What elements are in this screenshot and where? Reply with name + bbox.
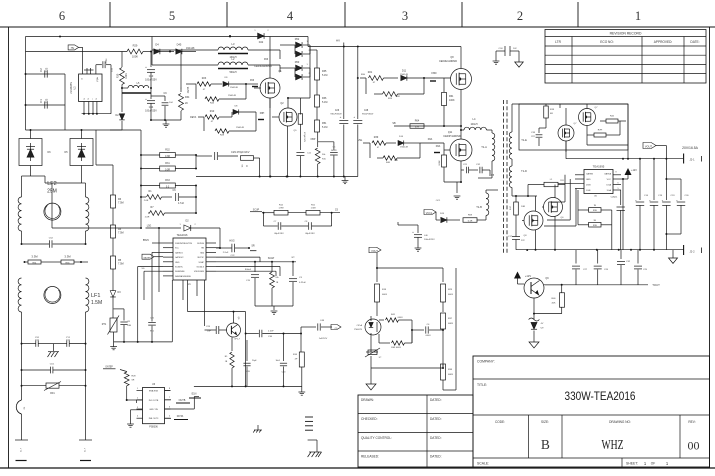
- svg-text:3.3M: 3.3M: [64, 255, 71, 259]
- svg-text:F66: F66: [250, 79, 255, 82]
- svg-text:0.3R: 0.3R: [165, 155, 170, 158]
- capacitor C34/C02: [496, 46, 519, 56]
- svg-text:+12V: +12V: [631, 169, 637, 172]
- wire: [110, 129, 122, 131]
- inductor L4 100uH: [460, 117, 492, 132]
- label 20V/16.5A: [682, 146, 699, 150]
- svg-text:TITLE:: TITLE:: [477, 383, 487, 387]
- resistor R29f 0603: [441, 284, 454, 310]
- svg-text:3: 3: [402, 9, 408, 23]
- svg-text:WHZ: WHZ: [602, 437, 624, 452]
- wire: [587, 104, 628, 159]
- zigzag resistor R24: [366, 77, 425, 100]
- label DOTA: [165, 388, 189, 420]
- capacitor C36 2.2nF: [246, 330, 284, 338]
- ground: [493, 51, 500, 64]
- resistor R18 6R: [544, 104, 555, 128]
- capacitor C19b: [662, 159, 676, 250]
- svg-text:GATELS: GATELS: [175, 251, 183, 254]
- MOSFET Q2 CE03H1100ND: [272, 97, 297, 178]
- capacitor C20c 20pF: [243, 340, 257, 386]
- capacitor C5 560PF: [318, 142, 338, 177]
- flag VCC1: [424, 210, 436, 216]
- EMI filter LF2 25M: [18, 181, 89, 244]
- dual diode D52: [280, 38, 310, 59]
- flag HV: [68, 45, 83, 74]
- capacitor CS11: [611, 190, 625, 250]
- diode D9 1N4148: [223, 77, 246, 89]
- resistor R29 100K: [26, 44, 152, 59]
- capacitor C29 470pF/1KV: [196, 150, 250, 160]
- svg-text:SCUP: SCUP: [253, 210, 260, 212]
- svg-text:223: 223: [45, 67, 49, 72]
- svg-text:SCAP: SCAP: [268, 257, 275, 260]
- wire: [371, 356, 444, 380]
- label GATEP2: [103, 366, 127, 372]
- svg-text:VSUS/GFB: VSUS/GFB: [194, 271, 205, 273]
- flag GATEP: [142, 254, 163, 259]
- ground: [127, 410, 142, 427]
- svg-text:R33: R33: [165, 179, 170, 182]
- resistor R55 3.3M: [24, 255, 89, 265]
- svg-text:+: +: [145, 65, 147, 69]
- svg-text:TEA1995: TEA1995: [593, 165, 605, 169]
- svg-text:DGB: DGB: [586, 185, 591, 187]
- wire SR gate drives: [544, 175, 576, 226]
- label SG12: [142, 268, 145, 270]
- capacitor C14: [635, 159, 649, 250]
- svg-text:SHSENSE: SHSENSE: [175, 271, 185, 273]
- svg-text:1N4148: 1N4148: [400, 147, 408, 149]
- svg-text:5.1M: 5.1M: [322, 101, 327, 104]
- svg-text:OC1: OC1: [436, 200, 441, 202]
- diode D3: [110, 283, 121, 318]
- svg-text:0.22uF: 0.22uF: [299, 282, 306, 284]
- capacitor C19: [649, 159, 663, 250]
- capacitor C24 1nF: [205, 326, 228, 334]
- zigzag resistor R21: [357, 71, 398, 84]
- flag VOUT out: [643, 143, 666, 159]
- power +12V: [622, 168, 637, 250]
- resistor R38f 0683: [441, 268, 457, 390]
- wire VCC1 run: [398, 222, 410, 225]
- resistor R5 7.5M: [111, 238, 124, 283]
- label OETA: [190, 116, 200, 119]
- wire TOUT link: [562, 284, 648, 286]
- wire: [188, 311, 247, 388]
- capacitor C8: [114, 309, 132, 342]
- svg-text:L5G: L5G: [358, 139, 363, 142]
- capacitor C8b 68pF/1KV: [281, 213, 331, 235]
- diode D2: [115, 88, 124, 130]
- wire SB node: [392, 104, 462, 127]
- svg-text:6: 6: [617, 183, 618, 185]
- svg-text:100uF/25V: 100uF/25V: [424, 239, 435, 241]
- wire: [136, 400, 138, 403]
- svg-text:VOUT: VOUT: [645, 145, 653, 149]
- svg-text:LTR: LTR: [555, 40, 561, 44]
- resistor R4 7.5M: [111, 208, 124, 238]
- svg-text:PS4075: PS4075: [354, 329, 363, 331]
- transformer T1-B winding: [476, 190, 498, 220]
- svg-text:0603: 0603: [448, 294, 454, 296]
- svg-text:OF: OF: [651, 462, 655, 466]
- svg-text:5.1M: 5.1M: [322, 74, 327, 77]
- connector J1-2: [79, 440, 92, 461]
- svg-text:10k: 10k: [275, 277, 278, 279]
- wire HV rail right: [288, 47, 310, 99]
- resistor R34 2K: [179, 52, 191, 121]
- label E1N: [165, 393, 202, 410]
- svg-text:10R: 10R: [521, 206, 525, 208]
- wire: [216, 267, 280, 277]
- svg-text:LNK364BN: LNK364BN: [70, 82, 73, 94]
- capacitor C4 0603: [411, 324, 443, 343]
- resistor R46 40K: [551, 285, 564, 314]
- svg-text:560PF: 560PF: [331, 150, 338, 152]
- svg-text:20pF: 20pF: [252, 360, 257, 362]
- resistor R30b: [578, 210, 612, 250]
- svg-text:C2: C2: [39, 68, 43, 72]
- svg-text:CODE:: CODE:: [495, 420, 505, 424]
- svg-text:R64: R64: [415, 120, 420, 123]
- svg-text:SG: SG: [142, 268, 145, 270]
- svg-text:XGA: XGA: [607, 189, 612, 192]
- svg-text:1: 1: [635, 9, 641, 23]
- zigzag resistor R66: [270, 262, 279, 306]
- transformer T1-D winding: [509, 159, 527, 196]
- svg-text:HV: HV: [336, 39, 340, 43]
- svg-text:R36: R36: [322, 97, 327, 100]
- svg-text:C1: C1: [39, 99, 43, 103]
- svg-text:1N4148: 1N4148: [236, 127, 244, 129]
- svg-text:T1-B: T1-B: [476, 205, 482, 209]
- svg-text:CU1: CU1: [50, 364, 55, 366]
- svg-text:CE03H1100ND: CE03H1100ND: [254, 64, 272, 68]
- svg-text:SUP3C: SUP3C: [197, 257, 204, 259]
- svg-text:GATEP: GATEP: [143, 257, 151, 260]
- svg-text:SCIB/VC: SCIB/VC: [175, 267, 184, 269]
- capacitor C34 100uF/25V: [145, 88, 157, 120]
- svg-text:D45: D45: [177, 43, 182, 47]
- svg-text:560uH: 560uH: [229, 71, 236, 74]
- MOSFET Q1 CE03H1100ND: [254, 37, 282, 109]
- connector J2-2: [684, 245, 702, 255]
- svg-text:R35: R35: [322, 70, 327, 73]
- zigzag resistor R1: [141, 190, 172, 202]
- svg-text:+: +: [340, 115, 342, 119]
- resistor R18f 0603: [375, 284, 388, 316]
- wire: [376, 253, 443, 282]
- svg-text:0.3R: 0.3R: [165, 168, 170, 171]
- svg-text:DATED:: DATED:: [430, 455, 442, 459]
- svg-text:2: 2: [517, 9, 523, 23]
- svg-text:L5G: L5G: [147, 225, 152, 228]
- fuse F1: [16, 400, 26, 414]
- resistor R35 5.1M: [310, 50, 327, 80]
- svg-text:68pF/1KV: 68pF/1KV: [274, 233, 284, 235]
- svg-text:0603: 0603: [398, 317, 404, 319]
- transformer T1-A winding: [481, 130, 495, 170]
- svg-text:SB: SB: [392, 122, 396, 125]
- svg-text:F8A: F8A: [428, 138, 433, 141]
- wire gnd bus: [194, 385, 302, 387]
- capacitor C17 222: [508, 234, 525, 250]
- svg-text:R3B: R3B: [593, 210, 598, 212]
- svg-text:SASWA/VSENSE: SASWA/VSENSE: [175, 275, 191, 278]
- svg-text:DATED:: DATED:: [430, 398, 442, 402]
- zigzag resistor R47: [225, 337, 234, 387]
- svg-text:OP-A: OP-A: [357, 324, 363, 327]
- svg-text:+: +: [412, 230, 414, 234]
- zigzag resistor R10: [200, 110, 232, 123]
- svg-text:20V/16.5A: 20V/16.5A: [682, 146, 699, 150]
- svg-text:INB OUT3: INB OUT3: [149, 418, 159, 420]
- svg-text:2.2nF: 2.2nF: [223, 252, 229, 254]
- diode D14 1N4148: [398, 136, 420, 149]
- wire U1 bottom pins: [183, 280, 205, 326]
- ground: [454, 196, 461, 199]
- svg-text:R34: R34: [185, 96, 190, 99]
- svg-text:1.5M: 1.5M: [311, 208, 316, 210]
- resistor R32 0.3R: [141, 149, 196, 158]
- dual diode D50: [280, 61, 310, 80]
- resistor R62 100K: [439, 143, 447, 182]
- svg-text:GATEB: GATEB: [586, 173, 594, 176]
- capacitor C6 4.7uF: [172, 186, 196, 206]
- capacitor C33 222: [531, 128, 546, 146]
- capacitor C7 68pF/1KV: [264, 213, 285, 235]
- svg-text:SUPHS: SUPHS: [197, 243, 205, 245]
- svg-text:GND YIN: GND YIN: [149, 409, 158, 411]
- svg-text:GND: GND: [175, 262, 180, 264]
- svg-text:0683: 0683: [448, 374, 454, 376]
- svg-text:100K: 100K: [132, 55, 138, 59]
- svg-text:IN1 OUTB: IN1 OUTB: [149, 400, 159, 402]
- svg-text:R51: R51: [322, 122, 327, 125]
- svg-text:R63 0603: R63 0603: [391, 347, 401, 349]
- svg-text:100K: 100K: [439, 160, 441, 166]
- capacitor C3 0.22uF: [289, 262, 306, 306]
- svg-text:DATED:: DATED:: [430, 436, 442, 440]
- svg-text:RT1: RT1: [102, 323, 107, 326]
- diode D45 1N4148: [150, 43, 196, 55]
- resistor R64 47R: [410, 120, 424, 129]
- svg-text:DRAWN:: DRAWN:: [361, 398, 374, 402]
- svg-text:XGB: XGB: [586, 190, 591, 192]
- resistor R61 100K: [436, 78, 455, 127]
- svg-text:R29: R29: [133, 44, 138, 48]
- svg-text:DGA: DGA: [606, 184, 611, 187]
- svg-text:DRAWING NO:: DRAWING NO:: [609, 420, 631, 424]
- wire top rail: [26, 36, 309, 47]
- flag F8H: [256, 112, 272, 120]
- ground triangle: [515, 51, 524, 67]
- diode D8 1N4148: [232, 106, 256, 118]
- zigzag resistor R40: [370, 138, 444, 164]
- svg-text:26R: 26R: [396, 96, 400, 98]
- svg-text:HSG: HSG: [229, 240, 234, 243]
- earth ground 2: [253, 425, 262, 433]
- svg-text:REVISION RECORD: REVISION RECORD: [610, 31, 642, 35]
- svg-text:DOTA: DOTA: [177, 415, 184, 418]
- capacitor C21b: [461, 164, 478, 173]
- transistor Q5: [227, 317, 241, 341]
- svg-text:T1-D: T1-D: [521, 169, 527, 173]
- connector J1-1: [15, 440, 28, 461]
- ground triangle: [366, 380, 376, 390]
- capacitor C1: [25, 73, 66, 109]
- wire HV bus: [308, 46, 461, 120]
- svg-text:C28: C28: [364, 110, 369, 112]
- svg-text:6.1R: 6.1R: [468, 221, 473, 223]
- svg-text:B5VC: B5VC: [143, 239, 150, 242]
- svg-text:7.5M: 7.5M: [118, 232, 124, 235]
- resistor R37 0683: [441, 310, 454, 356]
- optocoupler OP-A: [354, 316, 381, 352]
- bridge rectifier D6: [19, 130, 51, 176]
- svg-text:100K: 100K: [449, 99, 455, 102]
- svg-text:10nF: 10nF: [275, 360, 280, 362]
- capacitor C2M: [96, 59, 114, 114]
- svg-text:5: 5: [617, 188, 618, 190]
- inductor L1/R11: [528, 179, 565, 196]
- svg-text:26R: 26R: [394, 160, 398, 162]
- diode D42: [229, 30, 269, 44]
- transistor Q9: [524, 277, 549, 298]
- resistor R41 0603: [379, 314, 412, 343]
- svg-text:1N4148: 1N4148: [186, 47, 195, 50]
- resistor R16 4P: [284, 333, 305, 387]
- svg-text:ENA EXB: ENA EXB: [149, 390, 159, 393]
- title block: [473, 356, 710, 467]
- ground: [255, 306, 293, 314]
- label FBP: [311, 138, 316, 141]
- capacitor C30: [665, 178, 689, 235]
- diode D11 1N4148: [400, 70, 424, 81]
- svg-text:GATEA: GATEA: [604, 173, 612, 176]
- svg-text:ECO NO:: ECO NO:: [600, 40, 614, 44]
- capacitor C2: [26, 67, 66, 130]
- svg-text:1N4148: 1N4148: [230, 87, 238, 89]
- MOSFET Q6b: [542, 185, 564, 250]
- capacitor C22 2.2nF: [216, 240, 256, 258]
- capacitor C27: [572, 250, 588, 285]
- svg-text:4.7uF: 4.7uF: [178, 202, 185, 205]
- power +12V arrow: [514, 272, 531, 285]
- svg-text:40K: 40K: [552, 303, 556, 305]
- capacitor C10 100uF/25V: [145, 52, 157, 89]
- svg-text:5R: 5R: [132, 380, 135, 382]
- capacitor C48 1nF/1KV: [301, 320, 332, 340]
- svg-text:R31: R31: [165, 162, 170, 165]
- EMI filter LF1 1.5M: [18, 278, 102, 344]
- diode D4: [154, 43, 170, 55]
- svg-text:F8D: F8D: [432, 71, 437, 75]
- varistor RF1: [21, 382, 87, 396]
- IC U2 LNK364BN: [70, 65, 111, 115]
- svg-text:5: 5: [169, 9, 175, 23]
- svg-text:J2-1: J2-1: [689, 158, 695, 162]
- svg-text:4: 4: [287, 9, 294, 23]
- svg-text:100K: 100K: [125, 73, 128, 79]
- svg-text:SCAP: SCAP: [199, 261, 205, 264]
- ground bus: [196, 176, 358, 184]
- svg-text:100uH: 100uH: [470, 123, 477, 126]
- svg-text:GND: GND: [586, 179, 591, 181]
- svg-text:D50: D50: [295, 61, 300, 64]
- svg-text:COMPANY:: COMPANY:: [477, 360, 495, 364]
- svg-text:223: 223: [45, 98, 49, 103]
- flag VOUT fb: [369, 247, 381, 253]
- svg-text:RELEASED:: RELEASED:: [361, 455, 379, 459]
- svg-text:TEA2016: TEA2016: [177, 233, 188, 237]
- svg-text:VOUT: VOUT: [371, 250, 378, 253]
- svg-text:J2-2: J2-2: [689, 250, 695, 254]
- svg-text:GATEP: GATEP: [105, 366, 113, 369]
- svg-text:DATED:: DATED:: [430, 417, 442, 421]
- capacitor C28c 10nF: [275, 333, 287, 388]
- svg-text:0603: 0603: [382, 294, 388, 296]
- earth ground: [308, 440, 322, 457]
- label HV: [336, 39, 344, 47]
- svg-text:R30: R30: [117, 73, 120, 78]
- transformer T1 core: [504, 100, 508, 255]
- inductor L2 560uH: [152, 50, 280, 74]
- resistor R17 10R: [510, 196, 525, 234]
- capacitor C21: [148, 300, 156, 342]
- ground: [48, 352, 60, 357]
- svg-text:10B: 10B: [127, 325, 131, 327]
- resistor R33 0.3: [140, 154, 197, 188]
- thermistor RT1: [102, 316, 119, 342]
- capacitor C40 100uF/25V: [410, 225, 436, 248]
- resistor R12 1.9W: [262, 204, 306, 215]
- svg-text:OETA: OETA: [190, 116, 197, 119]
- svg-text:1N4148: 1N4148: [400, 74, 408, 76]
- zigzag resistor R39: [358, 136, 396, 149]
- svg-text:R39: R39: [374, 136, 379, 139]
- capacitor C52: [21, 238, 87, 248]
- svg-text:R3B: R3B: [593, 225, 598, 227]
- svg-text:7.5M: 7.5M: [118, 263, 124, 266]
- svg-text:CHECKED:: CHECKED:: [361, 417, 378, 421]
- svg-text:SHEET:: SHEET:: [626, 462, 638, 466]
- svg-text:C(S)11: C(S)11: [611, 197, 619, 199]
- IC U7 TEA1995: [558, 165, 628, 198]
- svg-text:0603: 0603: [426, 335, 432, 337]
- potentiometer RG1: [365, 348, 382, 359]
- wire bridge output: [22, 129, 142, 197]
- snubber R52 C11: [296, 98, 311, 177]
- svg-text:68pF/1KV: 68pF/1KV: [305, 233, 315, 235]
- svg-text:1nF/1KV: 1nF/1KV: [319, 338, 328, 340]
- MOSFET Q8b: [522, 196, 543, 250]
- svg-text:C2M: C2M: [106, 59, 108, 64]
- svg-text:CS: CS: [335, 210, 339, 212]
- label OC1: [436, 200, 441, 202]
- svg-text:930uF/450V: 930uF/450V: [362, 114, 374, 116]
- svg-text:D4: D4: [155, 43, 159, 47]
- inductor L3 160uH: [152, 37, 280, 60]
- svg-text:VCC1: VCC1: [426, 212, 433, 215]
- svg-text:CE03H110DND: CE03H110DND: [439, 59, 457, 63]
- wire: [151, 51, 153, 53]
- label OUTB: [165, 397, 191, 403]
- capacitor C26 930uF/450V: [330, 47, 348, 177]
- resistor R42: [600, 116, 626, 124]
- transformer T1-E winding: [509, 104, 527, 159]
